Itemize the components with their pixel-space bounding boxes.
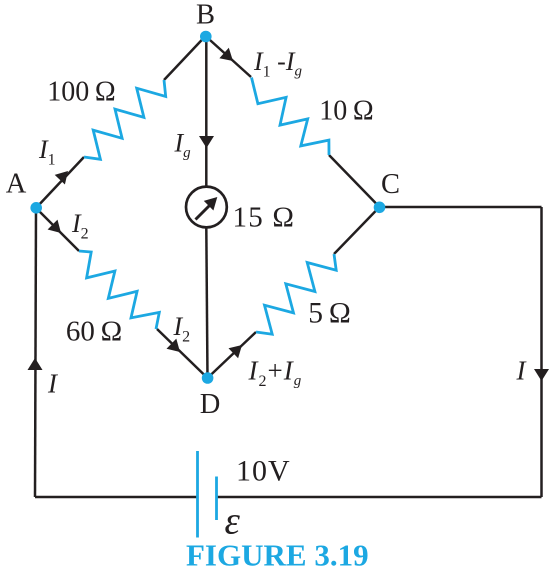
resistor 10Ω (arm B-C) (252, 78, 330, 156)
svg-text:Ig: Ig (174, 129, 192, 162)
wire galvanometer to D (206, 228, 207, 379)
svg-text:I: I (516, 356, 528, 386)
svg-text:60 Ω: 60 Ω (66, 316, 122, 348)
battery ε 10V positive plate (196, 451, 199, 538)
svg-text:B: B (196, 0, 215, 31)
svg-text:I1: I1 (38, 135, 56, 169)
arrow current Ig on wire B to galvanometer (199, 136, 214, 148)
wire D to 5Ω resistor (208, 332, 257, 378)
wire B to galvanometer (205, 36, 208, 187)
svg-text:I2: I2 (71, 209, 89, 243)
svg-text:5 Ω: 5 Ω (308, 298, 351, 330)
galvanometer needle (196, 206, 210, 220)
galvanometer G (15Ω) body (186, 187, 227, 228)
wire A to 100Ω resistor (36, 157, 84, 208)
svg-text:10 Ω: 10 Ω (319, 96, 373, 127)
wire right branch up (540, 207, 543, 497)
node A (30, 202, 42, 214)
svg-text:FIGURE 3.19: FIGURE 3.19 (186, 538, 369, 573)
svg-text:D: D (200, 389, 221, 420)
arrow current I1 on wire A to 100Ω (55, 171, 68, 185)
svg-text:I: I (47, 369, 59, 399)
wire 60Ω resistor to D (157, 329, 208, 378)
resistor 100Ω (arm A-B) (84, 80, 166, 159)
arrow current I2 on wire 60Ω to D (167, 339, 181, 352)
battery ε 10V negative plate (215, 477, 218, 521)
node B (200, 31, 212, 43)
arrow current I2+Ig on wire D to 5Ω (229, 345, 243, 358)
svg-text:A: A (6, 169, 27, 200)
arrow current I on left branch (up) (28, 358, 43, 370)
wire battery to bottom right corner (217, 496, 542, 499)
resistor 5Ω (arm D-C) (256, 254, 336, 334)
resistor 60Ω (arm A-D) (79, 251, 159, 329)
node C (374, 202, 386, 214)
wire A to 60Ω resistor (36, 208, 79, 251)
wire left branch A down (35, 208, 36, 497)
wire B to 10Ω resistor (206, 36, 252, 77)
svg-text:I1 -Ig: I1 -Ig (253, 47, 303, 81)
svg-text:15 Ω: 15 Ω (233, 202, 296, 234)
wire 10Ω resistor to C (329, 155, 380, 207)
node D (202, 372, 214, 384)
arrow current I2 on wire A to 60Ω (48, 220, 61, 233)
wire 5Ω resistor to C (334, 207, 380, 254)
svg-text:10V: 10V (236, 455, 291, 488)
wire C to right branch (380, 206, 542, 209)
svg-text:ε: ε (225, 500, 241, 543)
svg-text:100 Ω: 100 Ω (47, 77, 115, 108)
arrow current I on right branch (down) (534, 369, 549, 381)
arrow current I1-Ig on wire B to 10Ω (219, 48, 233, 61)
wire bottom left to battery (35, 496, 198, 499)
svg-text:I2+Ig: I2+Ig (248, 356, 303, 391)
svg-text:C: C (381, 169, 400, 200)
wire 100Ω resistor to B (164, 36, 206, 80)
svg-text:I2: I2 (173, 312, 191, 346)
